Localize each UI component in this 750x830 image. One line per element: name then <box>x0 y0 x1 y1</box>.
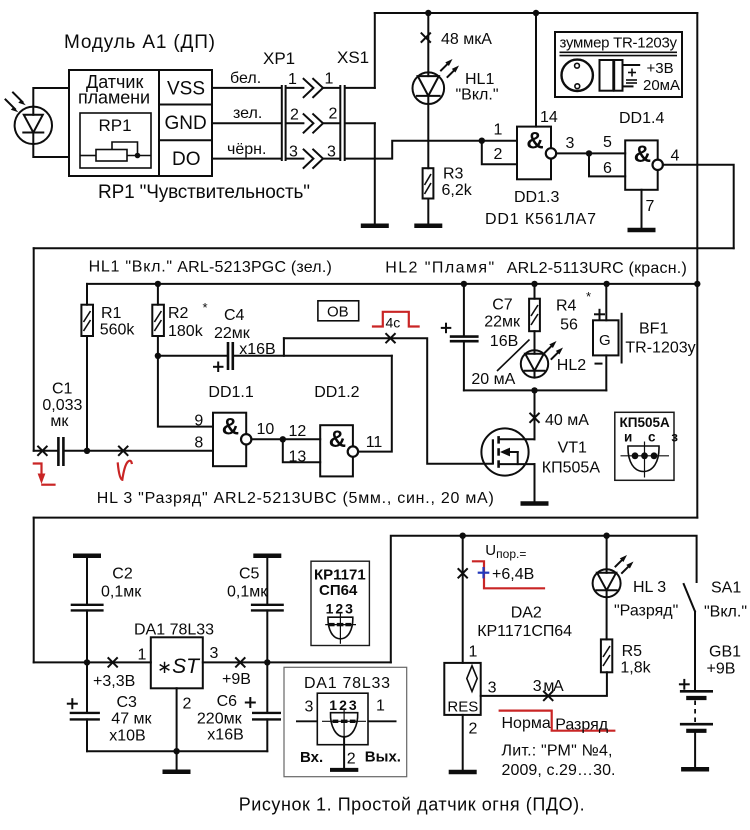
svg-text:Разряд: Разряд <box>555 717 609 734</box>
buzzer speaker circle <box>562 60 593 91</box>
svg-text:HL1 "Вкл.": HL1 "Вкл." <box>89 259 173 276</box>
junction dot HL3 rail <box>603 533 609 539</box>
svg-text:2: 2 <box>347 751 356 768</box>
svg-text:пламени: пламени <box>78 88 150 108</box>
svg-text:5: 5 <box>603 134 612 151</box>
junction dot pin2 bottom rail <box>173 748 179 754</box>
wire DD1.2 pin13 loop <box>283 439 320 462</box>
svg-text:VT1: VT1 <box>558 440 587 457</box>
svg-text:6: 6 <box>603 160 612 177</box>
svg-text:DA2: DA2 <box>511 605 542 622</box>
plus mark C6 <box>246 698 255 707</box>
marker x DA2 input <box>458 569 467 578</box>
svg-text:HL2: HL2 <box>557 357 586 374</box>
connector chevrons row 1 <box>304 79 323 97</box>
marker x 3мА <box>544 692 553 701</box>
svg-text:DD1.1: DD1.1 <box>208 384 253 401</box>
svg-text:1: 1 <box>325 70 334 87</box>
gate DD1.4 <box>625 140 663 189</box>
connector chevrons row 2 <box>304 114 323 132</box>
svg-text:4с: 4с <box>386 315 401 331</box>
wire HL3 to R5 <box>606 597 608 639</box>
marker x 40 мА <box>530 414 539 423</box>
wire C4 node <box>158 355 227 357</box>
svg-text:G: G <box>599 332 611 349</box>
trimmer RP1 inner box <box>80 113 151 168</box>
svg-text:HL 3: HL 3 <box>633 579 666 596</box>
marker x +3,3В <box>108 658 117 667</box>
plus mark C4 <box>214 363 223 372</box>
svg-text:2: 2 <box>329 106 338 123</box>
svg-text:+9В: +9В <box>707 661 736 678</box>
wire GND row (зел.) <box>212 122 375 124</box>
svg-text:КП505А: КП505А <box>542 460 601 477</box>
junction dot BF1 plus <box>603 281 609 287</box>
svg-text:VSS: VSS <box>167 79 205 100</box>
junction dot R1-C1 <box>84 448 90 454</box>
svg-text:HL 3 "Разряд" ARL2-5213UBC: HL 3 "Разряд" ARL2-5213UBC (5мм., син., … <box>97 490 494 507</box>
svg-text:Норма: Норма <box>502 715 551 732</box>
plus mark GB1 <box>680 680 689 689</box>
svg-text:3: 3 <box>488 680 497 697</box>
svg-text:КП505А: КП505А <box>620 415 670 430</box>
wire +3.3V rail (middle box bottom edge) <box>34 517 698 519</box>
junction dot pins 1-2 <box>479 138 485 144</box>
resistor R3 <box>423 168 434 198</box>
svg-text:47 мк: 47 мк <box>111 711 152 728</box>
wire left edge feed <box>33 518 35 663</box>
wire riser to +9V rail <box>391 536 697 663</box>
svg-text:&: & <box>526 128 543 155</box>
svg-text:&: & <box>634 141 651 168</box>
svg-text:+3,3В: +3,3В <box>93 673 135 690</box>
svg-text:56: 56 <box>560 317 578 334</box>
svg-text:КР1171: КР1171 <box>314 567 366 584</box>
capacitor C4 <box>228 342 392 370</box>
pinout box КР1171 СП64 <box>311 561 369 645</box>
svg-text:2: 2 <box>183 696 192 713</box>
svg-text:GND: GND <box>165 113 207 134</box>
chassis bar above C5 <box>253 553 281 558</box>
blue plus mark <box>478 567 490 578</box>
svg-text:11: 11 <box>366 434 383 451</box>
plus mark C7 <box>442 324 451 333</box>
svg-text:Модуль А1 (ДП): Модуль А1 (ДП) <box>64 32 215 53</box>
svg-text:R2: R2 <box>168 305 189 322</box>
svg-text:&: & <box>222 414 239 441</box>
svg-text:HL1: HL1 <box>465 71 494 88</box>
junction dot pin12-13 <box>280 436 286 442</box>
svg-text:зуммер TR-1203у: зуммер TR-1203у <box>560 35 678 52</box>
svg-text:C6: C6 <box>217 693 238 710</box>
svg-text:22мк: 22мк <box>484 314 521 331</box>
svg-text:220мк: 220мк <box>197 711 243 728</box>
svg-text:3 мА: 3 мА <box>533 678 564 695</box>
junction dot top rail HL1 <box>425 10 431 16</box>
LED HL3 emission arrows <box>616 555 634 573</box>
svg-text:RP1: RP1 <box>99 116 132 135</box>
svg-text:Вх.: Вх. <box>300 749 323 766</box>
svg-text:DD1.4: DD1.4 <box>619 110 664 127</box>
connector XP1 bars <box>282 86 286 160</box>
svg-text:ARL2-5113URC (красн.): ARL2-5113URC (красн.) <box>507 260 687 277</box>
red pulse 4c <box>373 312 419 327</box>
resistor R4 <box>529 284 540 350</box>
junction dot C7 top <box>461 281 467 287</box>
LED HL1 emission arrows <box>441 59 459 77</box>
svg-text:DA1 78L33: DA1 78L33 <box>304 675 390 692</box>
buzzer info box зуммер TR-1203у <box>555 32 682 97</box>
svg-text:DD1 К561ЛА7: DD1 К561ЛА7 <box>485 211 596 228</box>
svg-text:DD1.2: DD1.2 <box>314 384 359 401</box>
wire HL2 bottom rail <box>464 389 606 391</box>
junction dot C2 rail <box>84 659 90 665</box>
svg-text:СП64: СП64 <box>319 582 358 599</box>
wire DD1.3 output pin3 <box>556 152 625 154</box>
marker x 48 мкА <box>422 33 431 42</box>
svg-text:&: & <box>329 426 346 453</box>
svg-text:+3В: +3В <box>647 60 674 77</box>
wire VT1 source to ground <box>534 464 536 501</box>
svg-text:RES: RES <box>447 699 478 716</box>
marker x after C1 <box>119 447 128 456</box>
svg-text:0,1мк: 0,1мк <box>101 584 142 601</box>
svg-text:7: 7 <box>646 198 655 215</box>
svg-text:C2: C2 <box>112 566 133 583</box>
ground under DD1.4 pin7 <box>628 228 656 233</box>
svg-text:GB1: GB1 <box>709 644 741 661</box>
svg-text:х10В: х10В <box>109 728 145 745</box>
svg-text:+9В: +9В <box>222 671 251 688</box>
svg-text:560k: 560k <box>100 322 136 339</box>
svg-text:"Вкл.": "Вкл." <box>456 87 499 104</box>
svg-text:Вых.: Вых. <box>365 749 401 766</box>
ground under XS1 pin2 <box>361 224 389 229</box>
LED HL2 emission arrows <box>545 341 563 359</box>
wire DD1.4 pin6 loop <box>589 153 625 176</box>
svg-text:1: 1 <box>288 71 297 88</box>
svg-text:6,2k: 6,2k <box>442 182 473 199</box>
ground under DA1 pin2 <box>163 770 191 775</box>
minus mark BF1 <box>596 363 602 365</box>
wire HL1 anode from top rail <box>427 13 429 72</box>
marker x before C1 <box>38 447 47 456</box>
ground under DA2 pin2 <box>449 770 477 775</box>
svg-text:+6,4В: +6,4В <box>492 566 534 583</box>
svg-text:*: * <box>586 289 591 304</box>
svg-text:1: 1 <box>138 647 147 664</box>
svg-text:TR-1203у: TR-1203у <box>625 340 695 357</box>
red waveform Норма-Разряд <box>500 711 615 731</box>
battery GB1 <box>680 691 713 767</box>
svg-text:3: 3 <box>566 135 575 152</box>
pinout box КП505А <box>615 412 684 480</box>
wire top rail <box>375 12 698 14</box>
svg-text:"Вкл.": "Вкл." <box>704 604 747 621</box>
svg-text:мк: мк <box>50 413 69 430</box>
svg-text:Лит.: "РМ" №4,: Лит.: "РМ" №4, <box>502 743 613 760</box>
junction dot R4 top <box>531 281 537 287</box>
svg-text:16В: 16В <box>490 333 518 350</box>
wire main rail left part <box>34 661 151 663</box>
wire DA2 pin2 to ground <box>462 715 464 770</box>
gate DD1.2 <box>320 425 358 476</box>
svg-text:1: 1 <box>494 122 503 139</box>
svg-text:R1: R1 <box>101 305 122 322</box>
svg-text:х16В: х16В <box>239 341 275 358</box>
svg-text:HL2 "Пламя": HL2 "Пламя" <box>385 260 494 277</box>
svg-text:1: 1 <box>469 644 478 661</box>
wire DD1.4 output rail (top edge of middle section) <box>34 247 734 249</box>
wire DD1.3 pin2 loop <box>482 141 517 165</box>
switch SA1 <box>684 584 695 691</box>
pointer line 20 мА <box>497 340 530 372</box>
junction dot R2 top <box>155 281 161 287</box>
regulator DA1 box <box>151 637 203 688</box>
svg-text:0,1мк: 0,1мк <box>227 584 268 601</box>
module A1 box <box>69 70 212 176</box>
svg-text:9: 9 <box>194 413 203 430</box>
svg-text:10: 10 <box>257 421 275 438</box>
wire XS1 pin2 down to ground <box>374 123 376 224</box>
svg-text:SA1: SA1 <box>711 580 741 597</box>
svg-text:2: 2 <box>469 721 478 738</box>
svg-text:КР1171СП64: КР1171СП64 <box>477 623 572 640</box>
capacitor C2 <box>71 558 104 663</box>
svg-text:бел.: бел. <box>230 70 261 87</box>
LED HL3 <box>593 569 621 597</box>
photodiode BL1 <box>15 107 52 144</box>
svg-text:2009, с.29…30.: 2009, с.29…30. <box>502 762 616 779</box>
wire HL3 top <box>606 536 608 570</box>
wire photodiode anode to module <box>33 88 69 107</box>
buzzer piezo element <box>600 60 640 91</box>
svg-text:ОВ: ОВ <box>327 304 349 321</box>
svg-text:ХР1: ХР1 <box>263 49 295 68</box>
capacitor C1 <box>34 437 213 466</box>
svg-text:3: 3 <box>305 699 314 716</box>
svg-text:"Разряд": "Разряд" <box>614 603 678 620</box>
capacitor C7 <box>450 284 479 391</box>
svg-text:12: 12 <box>289 423 307 440</box>
red waveform gamma pulse <box>118 461 132 480</box>
svg-text:BF1: BF1 <box>639 321 668 338</box>
pinout box DA1 78L33 <box>284 667 407 776</box>
svg-text:зел.: зел. <box>233 105 262 122</box>
piezo BF1 <box>593 284 622 391</box>
wire DA2 pin1 <box>462 536 464 663</box>
junction dot VT1 drain <box>531 387 537 393</box>
svg-text:4: 4 <box>671 148 680 165</box>
svg-text:С7: С7 <box>492 297 513 314</box>
svg-text:3: 3 <box>210 645 219 662</box>
OB box <box>318 301 359 321</box>
chassis bar above C2 <box>73 553 101 558</box>
wire VT1 drain <box>534 390 536 439</box>
ground under GB1 <box>681 767 709 772</box>
wire DD1.3 pin14 <box>535 13 537 127</box>
junction dot right rail <box>694 281 700 287</box>
wire DD1.1 output pin10 <box>251 438 320 440</box>
svg-text:ARL-5213PGC (зел.): ARL-5213PGC (зел.) <box>177 259 331 276</box>
svg-text:DA1 78L33: DA1 78L33 <box>134 622 214 639</box>
svg-text:40 мА: 40 мА <box>545 412 589 429</box>
connector XS1 bars <box>340 86 344 160</box>
wire DO row (чёрн.) <box>212 158 340 160</box>
wire R2 bottom to DD1.1 pin9 <box>158 356 213 427</box>
plus mark BF1 <box>595 310 604 319</box>
wire 4c line to VT1 gate <box>284 338 493 464</box>
wire DD1.4 pin7 to ground <box>641 190 643 229</box>
svg-text:2: 2 <box>494 146 503 163</box>
svg-text:XS1: XS1 <box>337 48 369 67</box>
svg-text:∗ST: ∗ST <box>157 655 201 678</box>
svg-text:3: 3 <box>289 143 298 160</box>
svg-text:14: 14 <box>540 109 558 126</box>
svg-text:C3: C3 <box>117 694 138 711</box>
photodiode incoming light arrows <box>6 93 26 113</box>
svg-text:20мА: 20мА <box>643 77 680 94</box>
resistor R5 <box>601 639 612 672</box>
junction dot pin5-6 <box>586 150 592 156</box>
svg-text:чёрн.: чёрн. <box>227 141 266 158</box>
LED HL1 <box>413 72 445 104</box>
wire riser to 4c line <box>283 338 285 356</box>
wire DD1.2 output pin11 feedback <box>358 356 392 452</box>
svg-text:х16В: х16В <box>207 727 243 744</box>
wire photodiode cathode to module <box>33 144 69 157</box>
supervisor DA2 box <box>444 663 480 716</box>
plus mark C3 <box>68 699 77 708</box>
transistor VT1 <box>481 428 534 475</box>
svg-text:R4: R4 <box>556 298 577 315</box>
marker x +9В <box>236 658 245 667</box>
resistor R2 <box>152 284 164 356</box>
svg-text:2: 2 <box>290 107 299 124</box>
svg-text:1: 1 <box>376 698 385 715</box>
svg-text:и с з: и с з <box>624 430 684 445</box>
svg-text:R3: R3 <box>443 166 464 183</box>
svg-text:0,033: 0,033 <box>42 397 82 414</box>
svg-text:22мк: 22мк <box>214 325 251 342</box>
svg-text:C5: C5 <box>239 566 260 583</box>
resistor R1 <box>81 284 93 451</box>
wire XS1 pin1 up to top rail <box>374 13 376 88</box>
wire middle +супply rail <box>87 283 697 285</box>
connector chevrons row 3 <box>304 150 323 168</box>
wire left edge down to C1 <box>33 248 35 450</box>
wire R3 to ground <box>427 199 429 225</box>
svg-text:48 мкА: 48 мкА <box>441 31 492 48</box>
svg-text:8: 8 <box>194 435 203 452</box>
wire DA1 pin2 down <box>176 688 178 769</box>
capacitor C5 <box>251 558 284 663</box>
junction dot DA2 pin1 rail <box>460 533 466 539</box>
wire DD1.4 output pin4 <box>663 165 734 249</box>
red waveform discharge step <box>34 464 55 485</box>
svg-text:13: 13 <box>289 449 307 466</box>
capacitor C3 <box>70 662 100 751</box>
wire DO signal jog to DD1.3 <box>345 141 517 159</box>
LED HL2 <box>521 350 548 377</box>
svg-text:180k: 180k <box>168 323 204 340</box>
svg-text:3: 3 <box>327 143 336 160</box>
svg-text:R5: R5 <box>622 643 643 660</box>
red threshold step <box>473 561 544 588</box>
junction dot top rail pin14 <box>533 10 539 16</box>
gate DD1.1 <box>213 413 251 467</box>
svg-text:DO: DO <box>172 149 201 170</box>
wire bottom rail C3-C6 <box>87 750 267 752</box>
svg-text:Рисунок 1. Простой датчик огн: Рисунок 1. Простой датчик огня (ПДО). <box>239 795 585 815</box>
marker x on 4c line <box>386 334 395 343</box>
wire main rail right part <box>203 661 391 663</box>
capacitor C6 <box>252 662 281 751</box>
wire VSS row (бел.) <box>212 87 375 89</box>
svg-text:DD1.3: DD1.3 <box>514 189 559 206</box>
wire right rail down <box>696 13 698 518</box>
svg-text:C4: C4 <box>224 307 245 324</box>
svg-text:20 мА: 20 мА <box>471 371 515 388</box>
wire HL1 cathode down to R3 <box>427 96 429 168</box>
junction dot C5 rail <box>264 659 270 665</box>
svg-text:C1: C1 <box>52 381 73 398</box>
wire DA2 pin3 to R5 <box>481 672 607 696</box>
svg-text:*: * <box>203 300 208 315</box>
junction dot R2 bottom <box>155 353 161 359</box>
ground under R3 <box>414 224 442 229</box>
gate DD1.3 <box>517 127 556 180</box>
ground under VT1 <box>521 501 549 506</box>
svg-text:1,8k: 1,8k <box>620 660 651 677</box>
svg-text:RP1 "Чувствительность": RP1 "Чувствительность" <box>98 182 310 203</box>
